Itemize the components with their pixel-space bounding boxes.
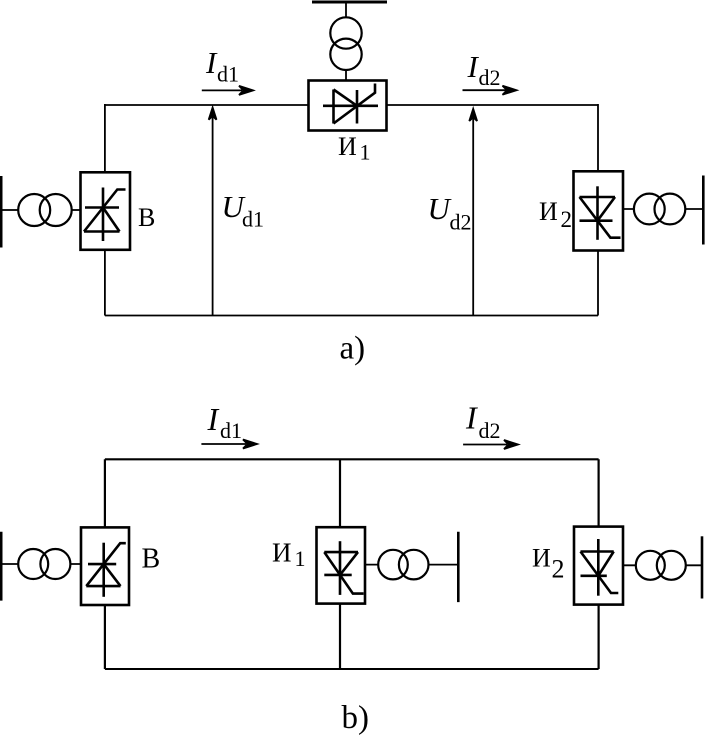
svg-text:И: И <box>532 544 551 573</box>
svg-text:d1: d1 <box>242 207 264 232</box>
svg-text:В: В <box>138 203 155 232</box>
svg-text:И: И <box>272 538 292 568</box>
svg-text:d2: d2 <box>479 418 501 443</box>
svg-text:И: И <box>539 197 558 226</box>
svg-text:И: И <box>338 132 357 161</box>
svg-text:d2: d2 <box>479 65 501 90</box>
svg-text:2: 2 <box>552 555 565 584</box>
svg-text:a): a) <box>340 331 366 367</box>
svg-text:d2: d2 <box>450 210 472 235</box>
svg-text:I: I <box>465 400 478 436</box>
svg-text:1: 1 <box>360 140 371 165</box>
svg-text:d1: d1 <box>220 418 242 443</box>
svg-text:В: В <box>142 543 161 574</box>
svg-text:b): b) <box>342 700 370 736</box>
svg-text:d1: d1 <box>217 62 239 87</box>
svg-text:2: 2 <box>561 207 573 232</box>
svg-text:1: 1 <box>295 546 306 571</box>
svg-text:I: I <box>207 401 220 437</box>
